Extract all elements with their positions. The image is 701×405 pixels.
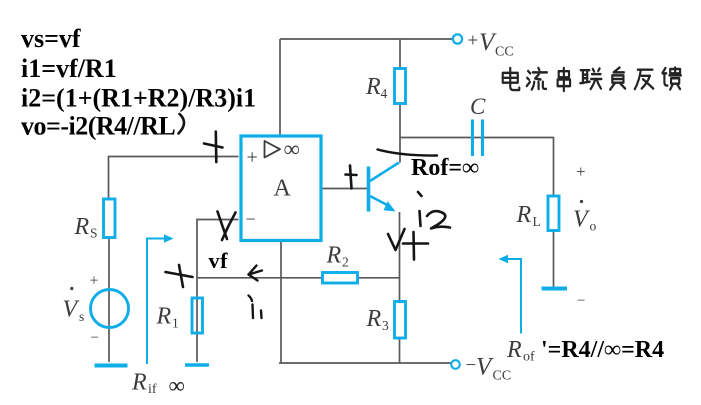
- svg-text:R: R: [506, 337, 522, 363]
- wire rail to R4: [399, 39, 401, 69]
- wire op-amp output to base: [322, 188, 368, 190]
- svg-text:of: of: [523, 350, 535, 365]
- ground below source: [95, 364, 128, 368]
- svg-text:C: C: [470, 94, 486, 119]
- svg-text:CC: CC: [495, 45, 514, 60]
- svg-text:+: +: [247, 147, 258, 169]
- handwritten i2: [418, 192, 450, 229]
- Chinese caption: lian: [580, 68, 601, 89]
- wire RS to source: [108, 238, 110, 363]
- Chinese caption: fu: [610, 68, 625, 90]
- svg-text:R: R: [131, 370, 147, 396]
- ground below R1: [185, 363, 209, 367]
- terminal -VCC: [451, 360, 460, 369]
- terminal +VCC: [453, 34, 462, 43]
- op-amp triangle gain symbol: [265, 141, 281, 158]
- wire collector node to capacitor and RL corner: [400, 138, 554, 197]
- svg-text:vo=-i2(R4//RL: vo=-i2(R4//RL: [21, 112, 175, 141]
- Chinese caption: kui: [662, 68, 680, 90]
- transistor Q1 collector: [370, 163, 399, 182]
- wire plus input: [109, 157, 239, 200]
- handwritten tick at base: [346, 166, 357, 189]
- resistor RL: [548, 196, 559, 231]
- resistor R1: [192, 298, 203, 333]
- svg-text:vs=vf: vs=vf: [21, 24, 81, 53]
- wire minus input: [197, 220, 239, 279]
- handwritten tick on plus input wire: [204, 132, 223, 163]
- wire emitter down through R2 node to R3: [399, 212, 401, 302]
- Rof arrow: [499, 255, 522, 334]
- handwritten tick at vf node: [166, 265, 193, 287]
- svg-text:A: A: [274, 176, 292, 202]
- svg-text:∞: ∞: [284, 137, 300, 162]
- svg-text:CC: CC: [493, 369, 512, 384]
- wire R4 to collector: [399, 104, 401, 163]
- svg-text:+: +: [468, 31, 479, 52]
- wire rail to op-amp top: [279, 39, 281, 135]
- svg-text:4: 4: [381, 86, 388, 101]
- svg-text:V: V: [63, 297, 80, 323]
- svg-text:L: L: [533, 214, 541, 229]
- handwritten X on minus input wire: [218, 212, 236, 241]
- svg-text:R: R: [74, 214, 90, 240]
- resistor R4: [395, 69, 406, 104]
- svg-text:R: R: [365, 74, 381, 100]
- svg-text:+: +: [90, 273, 99, 290]
- label Vs with dot: [63, 287, 85, 324]
- handwritten check mark: [388, 229, 405, 250]
- svg-text:S: S: [90, 226, 98, 241]
- handwritten left arrow at vf: [249, 266, 263, 281]
- wire bottom rail: [279, 362, 451, 364]
- resistor R3: [395, 302, 406, 339]
- svg-text:R: R: [516, 202, 532, 228]
- svg-text:1: 1: [172, 316, 179, 331]
- svg-text:vf: vf: [209, 248, 229, 273]
- svg-text:−: −: [466, 355, 477, 376]
- source Vs circle: [91, 290, 129, 328]
- label +VCC: [468, 29, 514, 60]
- svg-text:∞: ∞: [169, 373, 185, 398]
- svg-text:3: 3: [382, 318, 389, 333]
- svg-text:if: if: [148, 382, 157, 397]
- Chinese caption: dian: [503, 68, 520, 90]
- svg-text:V: V: [573, 207, 590, 233]
- op-amp U1 box: [241, 136, 321, 241]
- handwritten curve above Rof label: [378, 150, 438, 156]
- svg-text:−: −: [91, 330, 99, 346]
- svg-text:R: R: [366, 306, 382, 332]
- Chinese caption: chuan: [558, 68, 570, 91]
- Rif arrow: [147, 234, 174, 364]
- wire R1 top: [196, 278, 198, 362]
- svg-text:'=R4//∞=R4: '=R4//∞=R4: [541, 337, 664, 363]
- Chinese caption: liu: [527, 68, 547, 90]
- wire top rail: [280, 38, 453, 40]
- resistor RS: [104, 199, 116, 238]
- svg-text:i1=vf/R1: i1=vf/R1: [21, 54, 117, 83]
- label Rif: [131, 370, 157, 398]
- wire R3 to bottom rail: [399, 338, 401, 363]
- resistor R2: [323, 273, 358, 284]
- transistor Q1 emitter with arrow: [370, 196, 396, 212]
- svg-text:−: −: [577, 293, 585, 309]
- handwritten closing paren: [179, 114, 185, 134]
- svg-text:+: +: [576, 162, 586, 181]
- svg-text:o: o: [590, 219, 597, 234]
- svg-text:i2=(1+(R1+R2)/R3)i1: i2=(1+(R1+R2)/R3)i1: [21, 84, 256, 113]
- handwritten i1: [249, 296, 262, 319]
- capacitor C plates: [473, 120, 483, 157]
- svg-text:R: R: [156, 304, 172, 330]
- svg-text:−: −: [246, 209, 256, 229]
- wire op-amp bottom: [280, 242, 282, 363]
- ground below RL: [542, 287, 568, 291]
- wire R2 to emitter node: [358, 277, 400, 279]
- svg-text:Rof=∞: Rof=∞: [411, 155, 479, 181]
- svg-text:R: R: [326, 243, 342, 269]
- Chinese caption: fan: [635, 70, 653, 89]
- svg-text:s: s: [79, 309, 84, 324]
- transistor Q1 base bar: [367, 167, 371, 212]
- label Vo with dot: [573, 200, 597, 234]
- label -VCC: [466, 354, 512, 384]
- wire vf node to R2: [197, 277, 323, 279]
- label Rof'=R4//inf=R4: [506, 337, 664, 365]
- svg-text:2: 2: [342, 255, 349, 270]
- handwritten plus below check: [403, 232, 428, 260]
- wire RL bottom to ground: [553, 230, 555, 288]
